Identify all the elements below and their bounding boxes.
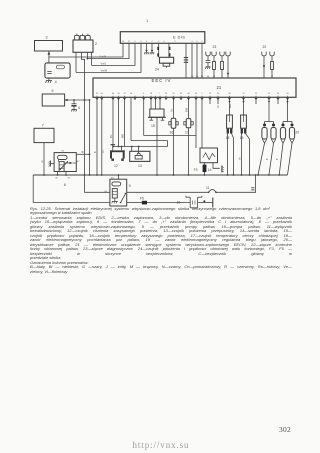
- svg-text:M/B: M/B: [123, 133, 125, 138]
- svg-text:19: 19: [217, 93, 220, 95]
- EDIS module 1: [120, 19, 205, 43]
- svg-text:14: 14: [208, 168, 212, 172]
- capacitor to ground on 23 pin 1: [205, 56, 210, 69]
- ground under EDIS pin 4: [144, 43, 149, 54]
- svg-text:28: 28: [228, 93, 231, 95]
- svg-text:9: 9: [129, 184, 131, 188]
- fuse F3: [194, 163, 207, 176]
- EDIS pin numbers: [122, 41, 204, 43]
- filter 4: [45, 63, 70, 84]
- svg-text:40: 40: [130, 93, 133, 95]
- injector 20a: [257, 122, 267, 176]
- svg-text:2: 2: [201, 93, 203, 95]
- throttle sensor 13: [130, 151, 150, 168]
- svg-text:45: 45: [180, 93, 183, 95]
- crank sensor 24: [155, 43, 174, 71]
- wire EDIS pin 6 with inline connector: [184, 43, 188, 78]
- svg-text:E DIS: E DIS: [173, 36, 185, 40]
- svg-text:23: 23: [213, 45, 217, 49]
- wire box 7 down: [43, 143, 45, 176]
- svg-text:8: 8: [64, 183, 66, 187]
- wire 22 pin 2 with arrow: [271, 56, 274, 78]
- svg-text:21: 21: [255, 93, 258, 95]
- svg-text:4: 4: [55, 80, 57, 84]
- svg-text:96: 96: [101, 93, 104, 95]
- air temp sensor 16: [169, 97, 178, 176]
- wire coil pin to Vw/M line: [87, 43, 129, 59]
- svg-text:10: 10: [177, 200, 181, 204]
- svg-text:F3: F3: [194, 168, 198, 172]
- svg-text:29: 29: [172, 93, 175, 95]
- injector 20c: [278, 122, 285, 176]
- ground inside relay 9: [112, 198, 118, 203]
- svg-text:B: B: [42, 162, 44, 164]
- svg-text:56: 56: [286, 93, 289, 95]
- svg-text:22: 22: [263, 45, 267, 49]
- watermark: [133, 443, 190, 448]
- svg-text:M: M: [83, 151, 85, 153]
- svg-text:20: 20: [295, 131, 299, 135]
- svg-text:31: 31: [242, 93, 245, 95]
- resistor on 22 pin 1: [263, 56, 265, 78]
- svg-text:7: 7: [42, 124, 44, 128]
- wire 23 pin 4 with arrow: [227, 56, 229, 78]
- svg-text:15: 15: [151, 124, 155, 128]
- pump supply wire: [33, 202, 190, 204]
- wires EDIS to EEC module: [192, 43, 202, 78]
- svg-text:46: 46: [187, 93, 190, 95]
- fuse F5: [140, 197, 147, 205]
- svg-text:2: 2: [95, 42, 97, 46]
- svg-text:7: 7: [158, 93, 160, 95]
- svg-text:M/G: M/G: [230, 103, 232, 108]
- capacitor 6: [71, 99, 80, 111]
- svg-text:46: 46: [112, 93, 115, 95]
- fuel pump relay 9: [105, 178, 131, 206]
- wire arrow into box 3: [48, 51, 51, 63]
- vertical feed wires to bus: [84, 97, 103, 176]
- svg-text:97: 97: [96, 93, 99, 95]
- svg-text:Vw: Vw: [172, 108, 174, 112]
- svg-text:28: 28: [150, 93, 153, 95]
- svg-text:52: 52: [268, 93, 271, 95]
- svg-text:34: 34: [277, 93, 280, 95]
- injector 20d: [288, 122, 300, 176]
- coolant temp sensor 17: [184, 97, 193, 176]
- wire coil pin to Vw/J line: [92, 43, 136, 65]
- EEC top pin numbers: [191, 76, 274, 78]
- vertical wire color labels: [83, 103, 280, 160]
- svg-text:B/J: B/J: [111, 135, 113, 138]
- resistor on 23 pin 2: [213, 56, 216, 78]
- svg-text:47: 47: [123, 93, 126, 95]
- MAP sensor 12: [110, 145, 125, 168]
- svg-text:11: 11: [206, 186, 210, 190]
- wire bus to relay 9: [118, 174, 120, 179]
- main bus wire: [33, 174, 287, 176]
- svg-text:6: 6: [78, 106, 80, 110]
- svg-text:17: 17: [185, 130, 189, 134]
- connector forks 22: [262, 52, 274, 56]
- svg-text:12: 12: [114, 164, 118, 168]
- svg-text:4: 4: [143, 93, 145, 95]
- svg-text:Vw/M: Vw/M: [101, 68, 107, 72]
- svg-text:21: 21: [217, 85, 222, 90]
- caption text block: [0, 0, 320, 1]
- inline connector marks on relay feed wire: [251, 188, 254, 190]
- svg-text:B/M: B/M: [187, 108, 189, 112]
- relay 8 feed wire: [76, 153, 90, 155]
- svg-text:5: 5: [52, 89, 54, 93]
- ground under filter 4: [46, 78, 52, 83]
- wire with arrow into box 5: [64, 99, 90, 102]
- wire node to bus: [89, 100, 91, 175]
- inertia switch 11: [190, 186, 217, 193]
- page number: [279, 428, 291, 433]
- svg-text:85: 85: [68, 178, 71, 180]
- svg-text:25: 25: [165, 93, 168, 95]
- wire coil pin to lower Vw/M line: [76, 43, 141, 72]
- svg-text:30: 30: [55, 178, 58, 180]
- fuel pump 10: [177, 196, 202, 208]
- pump output to chassis bar: [198, 198, 213, 208]
- svg-text:24: 24: [155, 67, 159, 71]
- octane connector 22: [263, 45, 267, 49]
- svg-text:16: 16: [170, 130, 174, 134]
- connector forks 23: [206, 52, 230, 56]
- svg-text:F5: F5: [140, 197, 144, 201]
- short stubs with wire labels: [210, 97, 278, 104]
- ignition coil 2: [73, 34, 97, 53]
- svg-text:B/J: B/J: [103, 150, 105, 153]
- svg-text:EEC IV: EEC IV: [152, 78, 172, 83]
- box 5 (supply terminal 15): [42, 89, 64, 106]
- lambda sensor 14: [196, 97, 218, 172]
- diagnostic connector 23: [213, 45, 217, 49]
- svg-text:Vw/M: Vw/M: [100, 55, 106, 59]
- relay coil feed wire: [85, 191, 209, 193]
- bus drop to relay circuit: [216, 174, 257, 192]
- wire 15 to bus: [156, 117, 158, 176]
- main relay 8: [54, 151, 80, 187]
- wire label B: [42, 162, 44, 164]
- wire coil supply to vertical feed: [82, 52, 85, 192]
- svg-text:87: 87: [77, 161, 80, 163]
- svg-text:13: 13: [138, 164, 142, 168]
- EEC bottom pin numbers: [96, 93, 290, 95]
- svg-text:Vw: Vw: [218, 104, 220, 108]
- ground under EDIS pin 7: [150, 43, 155, 54]
- svg-text:30: 30: [195, 93, 198, 95]
- ground at relay 8: [49, 161, 55, 167]
- svg-text:3: 3: [46, 36, 48, 40]
- idle valve 19: [240, 97, 251, 176]
- svg-text:26: 26: [117, 93, 120, 95]
- chassis ground right of lambda: [213, 163, 224, 173]
- EEC bottom pin forks: [96, 96, 290, 100]
- svg-text:1: 1: [146, 19, 148, 23]
- canister valve 18: [226, 97, 235, 176]
- injector supply bridges: [265, 97, 293, 121]
- box 7 (battery supply): [34, 124, 54, 143]
- speed sensor 15: [148, 97, 166, 128]
- resistor on 23 pin 3: [221, 56, 224, 78]
- injector 20b: [268, 122, 276, 176]
- svg-text:B: B: [267, 158, 269, 160]
- wires to sensors 12 13: [112, 97, 196, 153]
- bus corner to pump line: [32, 175, 34, 203]
- EEC IV control unit 21: [93, 78, 296, 97]
- wire tach signal: [49, 43, 123, 57]
- box 3 (to tachometer): [35, 36, 63, 52]
- svg-text:13: 13: [209, 93, 212, 95]
- svg-text:Vw/J: Vw/J: [101, 61, 107, 65]
- svg-text:B: B: [277, 158, 279, 160]
